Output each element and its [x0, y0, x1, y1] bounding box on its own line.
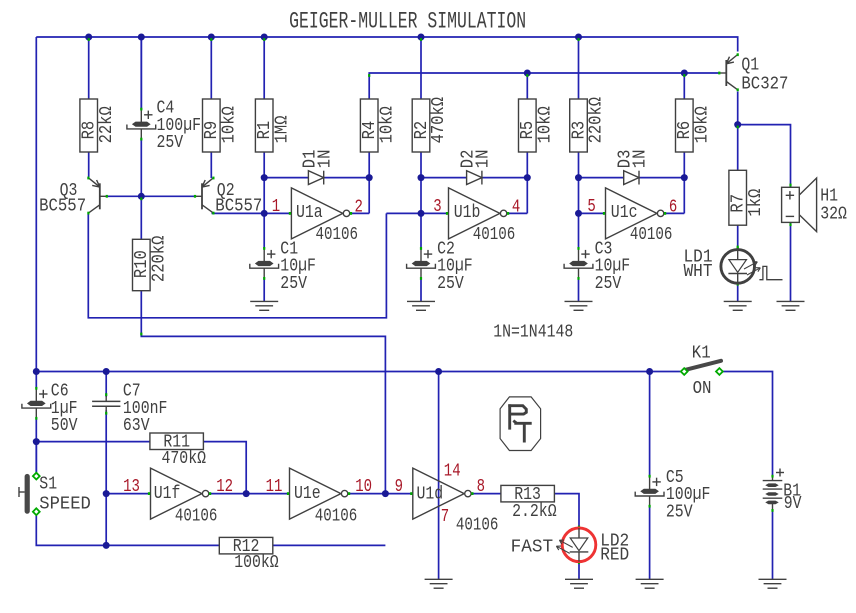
capacitor C2 — [407, 239, 473, 294]
wire: R6 bottom — [683, 152, 685, 178]
svg-text:32Ω: 32Ω — [820, 205, 847, 225]
wire: U1c input (pin5) — [579, 212, 606, 214]
wire: R8 to Q3 emitter — [88, 152, 90, 178]
capacitor C3 — [564, 239, 630, 294]
svg-text:7: 7 — [441, 507, 449, 527]
wire: U1a output up to D1 cathode — [368, 178, 370, 214]
wire: U1b output (pin4) — [508, 212, 528, 214]
svg-text:11: 11 — [266, 477, 283, 497]
wire: lower rail to K1 — [36, 371, 680, 373]
wire: U1f out (12) to U1e in (11) — [209, 493, 290, 495]
svg-text:50V: 50V — [51, 416, 78, 436]
ground (C1) — [250, 301, 278, 310]
resistor R11 — [150, 433, 206, 470]
wire: D2 row — [421, 177, 527, 179]
svg-text:1N: 1N — [631, 150, 651, 169]
wire: base node down to R10 — [140, 196, 142, 239]
wire: B1 to ground — [772, 511, 774, 579]
resistor R2 — [412, 38, 449, 152]
wire: down to S1 — [35, 442, 37, 473]
junction — [33, 368, 40, 375]
wire: second rail to Q1 base — [369, 73, 720, 99]
wire: U1a output (pin2) — [350, 212, 370, 214]
junction — [208, 34, 215, 41]
svg-text:25V: 25V — [157, 133, 184, 153]
contact S1 top — [33, 473, 40, 480]
junction — [138, 34, 145, 41]
svg-text:K1: K1 — [692, 344, 711, 364]
junction — [435, 368, 442, 375]
wire: C5 to ground — [649, 506, 651, 579]
junction — [138, 193, 145, 200]
wire: top supply rail (node VCC) and Q1 emitter drop — [36, 37, 737, 52]
wire: U1d power pins 14/7 to ground — [438, 372, 440, 580]
svg-text:25V: 25V — [595, 274, 622, 294]
junction — [524, 70, 531, 77]
svg-text:25V: 25V — [280, 274, 307, 294]
wire: LD1 to ground — [737, 283, 739, 301]
wire: rail drop at x=578.5 — [578, 37, 580, 99]
wire: R12 to pin9 node — [273, 544, 386, 546]
junction — [382, 490, 389, 497]
svg-text:H1: H1 — [820, 186, 838, 206]
svg-text:470kΩ: 470kΩ — [429, 97, 449, 144]
contact K1 left — [681, 368, 688, 375]
ground (LD2) — [565, 579, 593, 588]
ground (H1) — [777, 301, 805, 310]
svg-text:ON: ON — [693, 379, 712, 399]
wire: U1c output up to D3 cathode — [683, 178, 685, 214]
diode D1 — [300, 150, 335, 185]
wire: U1c output (pin6) — [665, 212, 685, 214]
svg-text:S1: S1 — [39, 475, 57, 495]
svg-text:U1c: U1c — [611, 203, 638, 223]
diode D3 — [616, 150, 651, 185]
LED LD2 RED — [511, 526, 630, 566]
wire: R2 bottom / U1b input column — [420, 152, 422, 249]
capacitor C4 — [127, 99, 201, 154]
wire: U1e out (10) to U1d in (9) — [349, 493, 413, 495]
wire: left vertical rail — [35, 37, 37, 388]
ground (C2) — [407, 301, 435, 310]
wire: R6 top stub — [683, 73, 685, 99]
svg-text:25V: 25V — [437, 274, 464, 294]
contact K1 right — [716, 368, 723, 375]
svg-text:220kΩ: 220kΩ — [150, 235, 170, 282]
resistor R13 — [501, 485, 557, 522]
resistor R10 — [132, 197, 169, 335]
wire: S1 bottom to R12 — [36, 515, 219, 545]
resistor R3 — [569, 38, 606, 152]
svg-text:1kΩ: 1kΩ — [746, 189, 766, 217]
junction — [261, 174, 268, 181]
svg-text:25V: 25V — [666, 502, 693, 522]
resistor R1 — [255, 38, 292, 152]
wire: Q2 collector to U1a input (pin1) — [212, 212, 292, 214]
ground (LD1) — [724, 301, 752, 310]
junction — [681, 174, 688, 181]
switch K1 (ON) — [686, 361, 722, 370]
junction — [103, 368, 110, 375]
svg-text:WHT: WHT — [684, 262, 713, 282]
inverter U1a (40106) — [289, 188, 352, 239]
svg-text:8: 8 — [477, 477, 485, 497]
svg-text:BC327: BC327 — [741, 74, 788, 94]
wire: R4 bottom — [368, 152, 370, 178]
svg-text:3: 3 — [433, 197, 441, 217]
svg-text:1N=1N4148: 1N=1N4148 — [493, 323, 573, 343]
inverter U1d (40106) — [410, 468, 473, 519]
wire: R13 to LD2 — [554, 494, 579, 529]
wire: rail drop at x=141.3 — [140, 37, 142, 110]
svg-text:Q1: Q1 — [741, 56, 759, 76]
svg-text:6: 6 — [669, 197, 677, 217]
ground (C3) — [565, 301, 593, 310]
svg-text:U1a: U1a — [296, 203, 323, 223]
transistor Q3 BC557 — [87, 177, 108, 215]
junction — [646, 368, 653, 375]
svg-text:100kΩ: 100kΩ — [234, 553, 279, 573]
wire: U1d out (8) to R13 — [472, 493, 501, 495]
speaker H1 — [782, 178, 847, 232]
inverter U1f (40106) — [148, 468, 211, 519]
wire: D1 row — [264, 177, 369, 179]
svg-text:4: 4 — [512, 197, 520, 217]
junction — [261, 34, 268, 41]
svg-text:10kΩ: 10kΩ — [536, 106, 556, 143]
svg-text:9V: 9V — [784, 494, 802, 514]
wire: feedback to U1b input (pin3) — [386, 212, 448, 214]
wire: R7 to LD1 — [737, 225, 739, 249]
svg-text:U1d: U1d — [417, 484, 444, 504]
wire: Q1 collector down — [737, 92, 739, 125]
battery B1 9V — [763, 469, 802, 515]
contact S1 bottom — [33, 508, 40, 515]
svg-text:40106: 40106 — [316, 225, 359, 245]
wire: rail to C4 — [140, 37, 142, 109]
wire: R10 bottom feedback to pin9 node — [141, 291, 385, 494]
svg-text:BC557: BC557 — [215, 197, 262, 217]
svg-text:2: 2 — [355, 197, 363, 217]
wire: rail drop at x=264.2 — [263, 37, 265, 99]
svg-text:40106: 40106 — [175, 506, 218, 526]
svg-text:10kΩ: 10kΩ — [693, 106, 713, 143]
resistor R6 — [675, 74, 712, 152]
wire: C1 to ground — [263, 279, 265, 302]
wire: R5 top stub — [526, 73, 528, 99]
svg-text:12: 12 — [216, 477, 233, 497]
svg-text:1MΩ: 1MΩ — [272, 115, 292, 143]
wire: C4 to base node — [140, 139, 142, 197]
wire: C2 to ground — [420, 279, 422, 302]
svg-text:1N: 1N — [315, 150, 335, 169]
junction — [261, 210, 268, 217]
resistor R4 — [360, 74, 397, 152]
junction — [575, 34, 582, 41]
wire: U1b output up to D2 cathode — [526, 178, 528, 214]
transistor Q1 BC327 — [718, 53, 739, 91]
inverter U1b (40106) — [446, 188, 509, 239]
junction — [418, 174, 425, 181]
svg-text:14: 14 — [444, 462, 461, 482]
resistor R8 — [80, 38, 117, 152]
svg-text:2.2kΩ: 2.2kΩ — [512, 502, 557, 522]
junction — [524, 174, 531, 181]
svg-text:10: 10 — [355, 477, 372, 497]
wire: rail to C5 — [649, 372, 651, 477]
svg-text:10kΩ: 10kΩ — [377, 106, 397, 143]
svg-text:220kΩ: 220kΩ — [587, 97, 607, 144]
svg-text:FAST: FAST — [511, 537, 554, 557]
PT logo — [500, 397, 540, 451]
junction — [33, 438, 40, 445]
wire: rail drop at x=88.7 — [88, 37, 90, 99]
capacitor C7 — [92, 382, 167, 437]
svg-text:40106: 40106 — [456, 516, 499, 536]
resistor R12 — [219, 537, 279, 573]
wire: R11 to U1f output node — [203, 442, 246, 494]
wire: K1 to B1 — [723, 372, 773, 476]
svg-text:40106: 40106 — [630, 225, 673, 245]
switch S1 SPEED pushbutton — [19, 477, 27, 512]
svg-text:SPEED: SPEED — [39, 494, 91, 514]
svg-text:1N: 1N — [474, 150, 494, 169]
ground (U1 pin7) — [425, 579, 453, 588]
wire: R1 bottom / U1a input column — [263, 152, 265, 249]
wire: node to R11 — [36, 441, 150, 443]
wire: Q1 collector to speaker H1 — [738, 125, 791, 188]
capacitor C1 — [250, 239, 316, 294]
wire: to R7 — [737, 125, 739, 171]
junction — [103, 542, 110, 549]
LED LD1 WHT — [684, 247, 761, 285]
wire: R9 to Q2 emitter — [210, 152, 212, 178]
wire: LD2 to ground — [578, 561, 580, 579]
wire: Q3 collector feedback to U1b input — [88, 213, 386, 317]
junction — [418, 210, 425, 217]
svg-text:13: 13 — [123, 477, 140, 497]
svg-text:5: 5 — [587, 197, 595, 217]
resistor R5 — [518, 74, 555, 152]
junction — [681, 70, 688, 77]
junction — [103, 490, 110, 497]
wire: rail to C7 — [105, 372, 107, 398]
wire: left rail below C6 — [35, 418, 37, 473]
inverter U1c (40106) — [603, 188, 666, 239]
capacitor C5 — [635, 468, 710, 523]
wire: C7/U1f input column — [105, 410, 107, 545]
junction — [734, 121, 741, 128]
svg-text:U1b: U1b — [454, 203, 481, 223]
resistor R7 — [729, 126, 766, 249]
ground (B1) — [759, 579, 787, 588]
svg-text:RED: RED — [600, 546, 629, 566]
svg-text:40106: 40106 — [315, 507, 358, 527]
capacitor C6 — [22, 382, 78, 437]
svg-text:40106: 40106 — [473, 225, 516, 245]
svg-text:1: 1 — [272, 197, 280, 217]
junction — [575, 174, 582, 181]
wire: R5 bottom — [526, 152, 528, 178]
wire: H1 to ground — [790, 222, 792, 301]
wire: Q3 base to Q2 base (node with R10/C4) — [106, 195, 195, 197]
svg-text:22kΩ: 22kΩ — [97, 106, 117, 143]
pulse waveform symbol — [759, 266, 782, 279]
svg-text:470kΩ: 470kΩ — [162, 449, 207, 469]
wire: R3 bottom / U1c input column — [578, 152, 580, 249]
wire: rail drop at x=421 — [420, 37, 422, 99]
junction — [418, 34, 425, 41]
wire: to U1f input (pin13) — [106, 493, 150, 495]
svg-text:GEIGER-MULLER SIMULATION: GEIGER-MULLER SIMULATION — [289, 9, 526, 35]
diode D2 — [459, 150, 494, 185]
junction — [366, 174, 373, 181]
svg-text:10kΩ: 10kΩ — [220, 106, 240, 143]
wire: C3 to ground — [578, 279, 580, 302]
svg-text:U1e: U1e — [294, 484, 321, 504]
svg-text:U1f: U1f — [154, 484, 181, 504]
svg-text:9: 9 — [395, 477, 403, 497]
svg-text:63V: 63V — [123, 416, 150, 436]
ground (C5) — [636, 579, 664, 588]
wire: D3 row — [579, 177, 685, 179]
wire: rail drop at x=211.3 — [210, 37, 212, 99]
junction — [575, 210, 582, 217]
junction — [243, 490, 250, 497]
transistor Q2 BC557 — [194, 177, 215, 215]
inverter U1e (40106) — [287, 468, 350, 519]
junction — [85, 34, 92, 41]
svg-text:BC557: BC557 — [39, 197, 86, 217]
resistor R9 — [202, 38, 239, 152]
